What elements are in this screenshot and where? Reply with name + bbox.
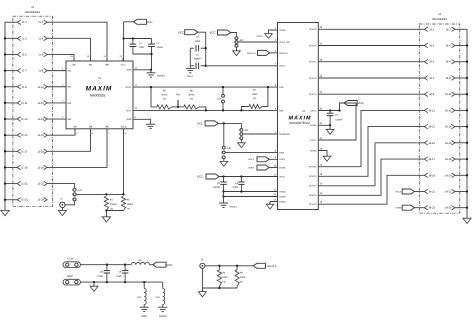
power flag VCC (U2 DVCC): [344, 101, 357, 106]
svg-text:REFCLK: REFCLK: [267, 265, 277, 268]
capacitor C7 100NF: [329, 111, 331, 114]
svg-text:100NF: 100NF: [194, 58, 201, 61]
svg-text:J1-2: J1-2: [38, 21, 44, 24]
pin J1-7: [17, 68, 20, 73]
svg-text:J1-12: J1-12: [37, 102, 44, 105]
junction on J1 bus row 8: [4, 134, 6, 136]
svg-text:AVCC: AVCC: [279, 175, 285, 178]
svg-text:J1-1: J1-1: [22, 21, 28, 24]
wire J1-15 to bus: [5, 134, 17, 136]
wire C1/C2 bottoms to AGND1 node: [133, 54, 152, 70]
wire J1-5 to bus: [5, 53, 17, 55]
svg-text:1%: 1%: [110, 207, 113, 210]
wire C3/C4 left rail: [189, 48, 191, 68]
pin J1-1: [17, 20, 20, 25]
junction on J1 bus row 4: [4, 69, 6, 71]
resistor R3 100ohm: [218, 266, 220, 270]
junction on J1 bus row 11: [4, 182, 6, 184]
node REFCLK flag (bottom): [253, 263, 265, 268]
op-amp U1 MAX9205 body: [66, 61, 133, 129]
node R1 top junction: [105, 193, 107, 195]
pin J1-5: [17, 52, 20, 57]
svg-text:1: 1: [72, 189, 73, 192]
svg-text:100NF: 100NF: [335, 118, 342, 121]
svg-text:GND: GND: [67, 275, 73, 278]
svg-text:J1-7: J1-7: [22, 70, 28, 73]
junction on J4 bus row 8: [466, 142, 468, 144]
svg-text:J1-6: J1-6: [38, 53, 44, 56]
svg-text:RCLK: RCLK: [396, 190, 402, 193]
wire RCLK flag to J4-21: [414, 191, 424, 193]
svg-text:VCC: VCC: [146, 20, 152, 24]
jumper JU2 (RCLK_R/F select): [235, 37, 238, 40]
junction on J4 bus row 7: [466, 125, 468, 127]
svg-text:OUT+: OUT+: [125, 86, 132, 89]
svg-text:AGND: AGND: [279, 29, 286, 32]
ground GND1 (C3/C4): [186, 67, 195, 69]
wire U2 pin22 DGND to C7: [318, 124, 330, 126]
pin J1-15: [17, 133, 20, 138]
junction on J4 bus row 4: [466, 77, 468, 79]
test point TP1: [172, 106, 184, 108]
junction on J1 bus row 10: [4, 166, 6, 168]
junction on J4 bus row 6: [466, 109, 468, 111]
svg-text:AGND: AGND: [279, 190, 286, 193]
svg-text:J4-9: J4-9: [429, 93, 435, 96]
svg-text:10NF: 10NF: [194, 40, 200, 43]
wire AVCC to U2 pin4: [206, 65, 278, 67]
pin J1-23: [17, 197, 20, 202]
wire R3/R4 bottoms to J5 shell: [218, 286, 220, 288]
svg-text:100NF: 100NF: [157, 46, 164, 49]
junction on J4 bus row 5: [466, 93, 468, 95]
wire J4-22 to bus: [455, 191, 467, 193]
wire J1-17 to bus: [5, 150, 17, 152]
svg-text:VCC: VCC: [197, 122, 203, 126]
ground AGND1 (U2 pins12/13): [223, 192, 225, 204]
ground (JU5 pin3): [223, 159, 225, 162]
svg-text:J1-8: J1-8: [38, 70, 44, 73]
pin J4-15: [424, 141, 427, 146]
wire J4-12 to bus: [455, 109, 467, 111]
wire J1-9 to bus: [5, 86, 17, 88]
resistor R5 49.9ohm: [151, 87, 157, 107]
wire REFCLK flag to U2 pin3: [270, 52, 278, 54]
wire JU2 pin2 to U2 pin2: [238, 41, 278, 43]
wire VCC to U2 pin11 AVCC: [219, 176, 277, 178]
wire U2 pin13 AGND: [224, 196, 278, 198]
wire J1-2 to U1 pin14 IN0: [47, 22, 107, 61]
wire U1 OUT+ to U2 RIN+: [133, 86, 278, 88]
svg-text:J1-3: J1-3: [22, 37, 28, 40]
capacitor C8 10NF: [106, 265, 108, 271]
svg-text:10NF: 10NF: [232, 186, 238, 189]
svg-text:1%: 1%: [240, 281, 243, 284]
pin J4-23: [424, 205, 427, 210]
pin J4-11: [424, 108, 427, 113]
svg-text:1%: 1%: [190, 98, 193, 101]
wire JU4 pin2 to R1/R2 tops: [76, 193, 123, 195]
op-amp U2 MAX9207 body: [278, 23, 319, 210]
capacitor C6 10NF: [240, 177, 242, 183]
svg-text:3: 3: [72, 198, 73, 201]
wire J1-3 to bus: [5, 37, 17, 39]
wire J4-18 to bus: [455, 158, 467, 160]
svg-text:RIN+: RIN+: [279, 86, 285, 89]
jumper JU3 (PWRDWN select): [240, 129, 243, 132]
svg-text:J1-23: J1-23: [21, 199, 28, 202]
svg-text:DVCC: DVCC: [310, 109, 317, 112]
svg-text:J1-9: J1-9: [22, 86, 28, 89]
svg-text:J4-10: J4-10: [445, 93, 452, 96]
svg-text:J4-15: J4-15: [428, 142, 435, 145]
wire C5/C6 bottoms to U2 pin12 AGND: [224, 191, 278, 193]
wire ROUT9 to J4-19: [318, 175, 424, 204]
jumper JU4 (TCLK select): [73, 188, 76, 191]
capacitor C1 10nF: [132, 39, 134, 45]
wire VCC to U1 pin13: [124, 22, 134, 61]
junction on J4 bus row 11: [466, 190, 468, 192]
svg-text:+3.3V: +3.3V: [67, 258, 74, 261]
svg-text:AGND1: AGND1: [159, 315, 168, 318]
jumper JU1: [222, 87, 224, 94]
svg-text:J4-24: J4-24: [445, 207, 452, 210]
svg-text:REFCLK: REFCLK: [247, 52, 256, 55]
svg-text:J4-5: J4-5: [429, 61, 435, 64]
svg-text:1: 1: [234, 37, 235, 40]
svg-text:J1-16: J1-16: [37, 134, 44, 137]
svg-text:3: 3: [221, 156, 222, 159]
resistor R2 100k: [122, 193, 124, 195]
node VCC rail junction: [122, 37, 124, 39]
junction on J1 bus row 3: [4, 53, 6, 55]
capacitor C2 100NF: [151, 39, 153, 45]
svg-text:DGND: DGND: [279, 200, 286, 203]
svg-text:J4-7: J4-7: [429, 77, 435, 80]
svg-text:AGND1: AGND1: [229, 206, 237, 209]
svg-text:RCLK: RCLK: [279, 158, 285, 161]
svg-text:100Ω: 100Ω: [252, 93, 258, 96]
ground (U2 pin20 DGND): [318, 151, 327, 157]
svg-text:1%: 1%: [163, 98, 166, 101]
svg-text:J4-20: J4-20: [445, 174, 452, 177]
ground (J2): [61, 207, 63, 210]
ground AGND1 (FB3): [158, 306, 167, 308]
ground AGND1 (U1 pin12): [150, 70, 152, 73]
wire J1-7 to bus: [5, 70, 17, 72]
svg-text:TP1: TP1: [176, 94, 181, 97]
connector J1 dashed outline: [13, 16, 53, 207]
wire DVCC pin23 to VCC flag: [318, 103, 344, 111]
ground (U1 pin9): [133, 119, 151, 124]
wire J1-10 to U1 pin2 IN4: [47, 86, 66, 88]
pin J4-1: [424, 27, 427, 32]
svg-text:RIN-: RIN-: [279, 109, 284, 112]
wire J4-2 to bus: [455, 28, 467, 30]
wire J2 to JU4 pin3: [65, 201, 75, 205]
ground (power entry): [93, 282, 95, 286]
svg-text:ROUT3: ROUT3: [309, 77, 317, 80]
svg-text:2: 2: [72, 193, 73, 196]
wire J1-22 to jumper JU4 pin1: [47, 184, 75, 189]
svg-text:J1-21: J1-21: [21, 183, 28, 186]
junction on J4 bus row 3: [466, 61, 468, 63]
pin J1-9: [17, 84, 20, 89]
svg-text:GND1: GND1: [257, 35, 264, 38]
power flag VCC (U1 pin13): [134, 19, 147, 24]
pin J4-9: [424, 92, 427, 97]
wire VCC to JU3 and JU5: [218, 122, 241, 124]
pin J4-21: [424, 189, 427, 194]
wire R1/R2 bottoms: [106, 210, 123, 212]
pin J1-21: [17, 181, 20, 186]
svg-text:PWRDWN: PWRDWN: [279, 133, 290, 136]
wire LOCK flag to U2 pin10: [269, 167, 277, 169]
junction on J1 bus row 5: [4, 86, 6, 88]
svg-text:ROUT8: ROUT8: [309, 194, 317, 197]
J1 ground bus wire (left): [4, 22, 6, 206]
wire J4-8 to bus: [455, 77, 467, 79]
wire J1-6 to U1 pin16 IN2: [47, 54, 74, 61]
resistor R4 100ohm: [236, 266, 238, 270]
svg-text:REFCLK: REFCLK: [279, 52, 288, 55]
ground (J4 bus): [466, 208, 468, 219]
svg-text:J4-1: J4-1: [429, 28, 435, 31]
svg-text:3: 3: [239, 137, 240, 140]
wire VCC decoupling rail: [124, 38, 152, 40]
wire ROUT5 to J4-11: [318, 110, 424, 166]
svg-text:MAXIM: MAXIM: [86, 85, 113, 92]
svg-text:100Ω: 100Ω: [222, 276, 228, 279]
svg-text:ROUT7: ROUT7: [309, 185, 317, 188]
svg-text:1%: 1%: [127, 207, 130, 210]
wire J1-18 to U1 pin6 IN8: [47, 129, 90, 152]
svg-text:J4-6: J4-6: [446, 61, 452, 64]
pin J1-19: [17, 165, 20, 170]
junction on J4 bus row 12: [466, 207, 468, 209]
svg-text:1%: 1%: [253, 97, 256, 100]
wire J4-16 to bus: [455, 142, 467, 144]
svg-text:MAX9207EUM: MAX9207EUM: [289, 121, 310, 125]
wire VCC down right rail: [198, 32, 206, 66]
power flag VCC (output of FB1): [153, 262, 166, 267]
svg-text:AVCC: AVCC: [279, 65, 285, 68]
svg-text:J4-22: J4-22: [445, 191, 452, 194]
pin J4-5: [424, 59, 427, 64]
wire J1-20 to U1 pin7 IN9: [47, 129, 107, 168]
wire J1-4 to U1 pin15 IN1: [47, 38, 90, 61]
svg-text:MAX9205: MAX9205: [90, 93, 105, 97]
node pin12/caps junction: [150, 69, 152, 71]
svg-text:J4-21: J4-21: [428, 191, 435, 194]
svg-text:J4-13: J4-13: [428, 126, 435, 129]
svg-text:J4-12: J4-12: [445, 109, 452, 112]
svg-text:LOCK: LOCK: [279, 166, 285, 169]
svg-text:J1-17: J1-17: [21, 150, 28, 153]
junction on J1 bus row 12: [4, 199, 6, 201]
svg-text:1: 1: [221, 146, 222, 149]
wire J1-21 to bus: [5, 183, 17, 185]
svg-text:DVCC: DVCC: [310, 139, 317, 142]
wire J1-12 to U1 pin3 IN5: [47, 102, 66, 104]
junction on J1 bus row 6: [4, 102, 6, 104]
junction on J1 bus row 2: [4, 37, 6, 39]
wire JU5 pin2 to U2 pin8 REN: [225, 151, 277, 153]
wire J1-13 to bus: [5, 118, 17, 120]
wire J1-8 to U1 pin1 IN3: [47, 70, 66, 72]
svg-text:REN: REN: [279, 151, 284, 154]
svg-text:OUT-: OUT-: [126, 109, 132, 112]
svg-text:JU1: JU1: [217, 98, 222, 101]
svg-text:GND: GND: [126, 118, 131, 121]
svg-text:LOCK: LOCK: [248, 166, 254, 169]
wire U1 OUT- to U2 RIN-: [133, 109, 278, 111]
svg-text:VCC: VCC: [209, 31, 215, 35]
wire VCC down to JU5 pin1: [223, 123, 225, 146]
svg-text:J1: J1: [31, 5, 34, 9]
ground (U2 pin14 DGND): [270, 202, 278, 205]
ground (J5): [201, 288, 203, 292]
svg-text:J4: J4: [438, 12, 441, 16]
ground (JU3 pin3): [240, 140, 242, 143]
svg-text:ROUT1: ROUT1: [309, 44, 317, 47]
svg-text:J4-23: J4-23: [428, 207, 435, 210]
svg-text:10µF: 10µF: [116, 275, 122, 278]
inductor FB3 ferrite bead to AGND1: [162, 282, 164, 288]
svg-text:GND1: GND1: [141, 315, 148, 318]
pin J1-3: [17, 36, 20, 41]
ground (JU2 pin3): [236, 47, 238, 51]
svg-text:JU5: JU5: [227, 147, 232, 150]
svg-text:AGND: AGND: [279, 195, 286, 198]
wire ROUT0 to J4-1: [318, 28, 424, 30]
pin J1-17: [17, 149, 20, 154]
svg-text:VCC: VCC: [166, 263, 172, 267]
junction on J1 bus row 9: [4, 150, 6, 152]
junction on J4 bus row 9: [466, 158, 468, 160]
svg-text:J4-4: J4-4: [446, 45, 452, 48]
capacitor C5 100NF: [223, 177, 225, 183]
svg-text:ROUT0: ROUT0: [309, 28, 317, 31]
svg-text:J1-11: J1-11: [21, 102, 28, 105]
svg-text:ROUT4: ROUT4: [309, 93, 317, 96]
svg-text:2: 2: [234, 41, 235, 44]
connector J4 dashed outline: [419, 24, 460, 213]
svg-text:1: 1: [239, 129, 240, 132]
svg-text:RCLK: RCLK: [248, 158, 254, 161]
svg-text:2: 2: [239, 133, 240, 136]
svg-text:49.9Ω: 49.9Ω: [188, 94, 194, 97]
svg-text:49.9Ω: 49.9Ω: [161, 94, 167, 97]
svg-text:AGND1: AGND1: [157, 75, 166, 78]
svg-text:J4-17: J4-17: [428, 158, 435, 161]
svg-text:GND1: GND1: [187, 75, 194, 78]
wire LOCK flag to J4-23: [414, 207, 424, 209]
wire GND rail: [80, 281, 162, 283]
svg-text:J1-20: J1-20: [37, 166, 44, 169]
inductor FB2 ferrite bead to GND1: [143, 282, 145, 288]
svg-text:TCLK: TCLK: [121, 125, 127, 128]
svg-text:VCC: VCC: [197, 175, 203, 179]
svg-text:J1-24: J1-24: [37, 199, 44, 202]
svg-text:1%: 1%: [222, 281, 225, 284]
wire J5 to REFCLK flag: [205, 265, 253, 267]
wire R6 to OUT- net: [199, 107, 206, 111]
svg-text:100Ω: 100Ω: [240, 276, 246, 279]
svg-text:J1-18: J1-18: [37, 150, 44, 153]
U1 top pin stubs and numbers 16 15 14 13: [73, 58, 75, 61]
svg-text:J1-4: J1-4: [38, 37, 44, 40]
wire RCLK flag to U2 pin9: [269, 158, 277, 160]
svg-text:GND: GND: [126, 69, 131, 72]
pin J4-3: [424, 43, 427, 48]
svg-text:JU4: JU4: [78, 189, 83, 192]
svg-text:VCC: VCC: [358, 101, 364, 105]
resistor R1 100k: [104, 196, 108, 210]
J4 ground bus wire (right): [466, 29, 468, 207]
pin J4-19: [424, 173, 427, 178]
svg-text:100NF: 100NF: [213, 186, 220, 189]
capacitor C9 10uF: [124, 265, 126, 271]
wire J4-14 to bus: [455, 126, 467, 128]
wire J1-23 to bus: [5, 199, 17, 201]
resistor R6 49.9ohm: [184, 105, 199, 109]
svg-text:2: 2: [221, 151, 222, 154]
wire J4-4 to bus: [455, 45, 467, 47]
wire U1 pin8 TCLK down: [123, 129, 125, 195]
svg-text:HEADER24: HEADER24: [432, 17, 447, 21]
svg-text:VCC: VCC: [178, 30, 184, 34]
wire +3.3V rail: [80, 264, 131, 266]
svg-text:J4-3: J4-3: [429, 45, 435, 48]
wire J4-6 to bus: [455, 61, 467, 63]
wire ROUT6 to J4-13: [318, 127, 424, 177]
svg-text:J4-19: J4-19: [428, 174, 435, 177]
svg-text:J1-19: J1-19: [21, 166, 28, 169]
svg-text:J4-14: J4-14: [445, 126, 452, 129]
pin J4-17: [424, 157, 427, 162]
wire J1-1 to bus: [5, 21, 17, 23]
wire J4-10 to bus: [455, 93, 467, 95]
junction on J1 bus row 7: [4, 118, 6, 120]
ground (R1/R2): [105, 211, 107, 217]
svg-text:J1-10: J1-10: [37, 86, 44, 89]
wire ROUT3 to J4-7: [318, 77, 424, 79]
wire J4-20 to bus: [455, 174, 467, 176]
svg-text:10NF: 10NF: [97, 275, 103, 278]
pin J1-13: [17, 117, 20, 122]
svg-text:LOCK: LOCK: [396, 207, 402, 210]
wire U1 pin12 GND: [133, 69, 151, 71]
svg-text:DGND: DGND: [310, 149, 317, 152]
junction on J4 bus row 10: [466, 174, 468, 176]
wire JU3 pin2 to U2 pin7 PWRDWN: [243, 133, 278, 135]
svg-text:J1-22: J1-22: [37, 183, 44, 186]
wire VCC flag to DVCC pin21: [318, 103, 356, 140]
svg-text:ROUT5: ROUT5: [309, 166, 317, 169]
wire ROUT2 to J4-5: [318, 61, 424, 63]
wire J1-14 to U1 pin4 IN6: [47, 118, 66, 120]
ground GND1 (FB2): [140, 306, 149, 308]
svg-text:JU3: JU3: [244, 129, 249, 132]
svg-text:HEADER24: HEADER24: [25, 10, 40, 14]
wire J4-24 to bus: [455, 207, 467, 209]
wire VCC to JU2 pin1: [231, 33, 237, 37]
svg-text:J4-16: J4-16: [445, 142, 452, 145]
pin J1-11: [17, 101, 20, 106]
svg-text:J1-13: J1-13: [21, 118, 28, 121]
jumper JU5 (REN select): [222, 146, 225, 149]
